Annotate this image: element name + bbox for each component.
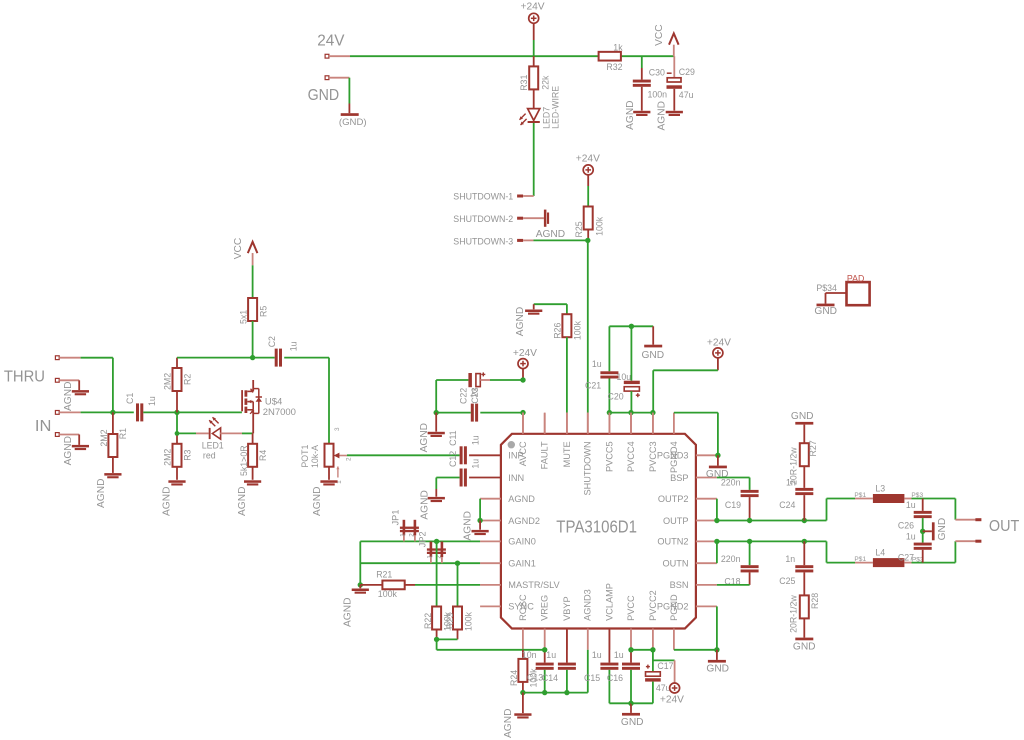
- svg-text:THRU: THRU: [4, 369, 45, 386]
- wire C2 to POT1: [328, 358, 330, 444]
- svg-text:5x1: 5x1: [238, 310, 248, 324]
- resistor R3 2M2: [163, 412, 193, 479]
- svg-text:C21: C21: [585, 381, 601, 391]
- svg-text:LED-WIRE: LED-WIRE: [550, 86, 560, 129]
- wire OUTP2 jog: [716, 499, 718, 521]
- supply +24V (AVCC): [513, 348, 537, 380]
- capacitor C18 220n (bootstrap N): [721, 541, 759, 586]
- port IN: [35, 411, 81, 435]
- svg-text:1u: 1u: [147, 396, 157, 406]
- ground GND (PGND bottom): [706, 650, 729, 675]
- wire gain set to VREG: [437, 639, 545, 649]
- svg-text:AGND3: AGND3: [583, 589, 593, 621]
- svg-text:OUTN: OUTN: [662, 559, 688, 569]
- svg-text:R23: R23: [445, 613, 455, 629]
- transistor U$4 2N7000: [242, 380, 296, 433]
- svg-text:INN: INN: [508, 473, 524, 483]
- svg-text:C12: C12: [448, 451, 458, 467]
- ground AGND (IN): [55, 433, 89, 466]
- svg-text:+24V: +24V: [513, 348, 537, 359]
- svg-text:AGND: AGND: [63, 382, 74, 411]
- svg-text:20R-1/2w: 20R-1/2w: [789, 595, 799, 633]
- wire R23 drop: [457, 563, 459, 606]
- ground GND (PGND top): [706, 455, 729, 480]
- svg-text:C14: C14: [542, 673, 558, 683]
- svg-text:C2: C2: [267, 336, 277, 347]
- wire analog gnd row: [523, 692, 588, 694]
- ground GND (snubber P): [791, 411, 814, 443]
- svg-text:1u: 1u: [592, 650, 602, 660]
- capacitor C1 1u: [125, 393, 177, 422]
- wire PGND top: [674, 413, 718, 456]
- junction agnd row 2: [542, 690, 547, 695]
- resistor R1 2M2: [99, 412, 128, 473]
- svg-text:AGND: AGND: [419, 423, 430, 452]
- svg-text:R25: R25: [574, 221, 584, 237]
- svg-text:1u: 1u: [592, 359, 602, 369]
- svg-text:+24V: +24V: [521, 2, 545, 13]
- svg-text:AGND: AGND: [508, 494, 535, 504]
- svg-text:10n: 10n: [522, 650, 537, 660]
- port SHUTDOWN-2: [453, 214, 544, 224]
- capacitor C24 1n (snubber P): [779, 478, 813, 521]
- port SHUTDOWN-1: [453, 191, 533, 201]
- junction R3/LED node: [175, 431, 180, 436]
- svg-text:100k: 100k: [573, 320, 583, 340]
- svg-text:1n: 1n: [785, 554, 795, 564]
- jumper JP2: [418, 531, 446, 563]
- svg-text:C16: C16: [607, 673, 623, 683]
- junction AVCC node right: [520, 410, 525, 415]
- svg-text:1n: 1n: [786, 478, 796, 488]
- inductor L4: [854, 547, 955, 567]
- svg-text:C20: C20: [608, 392, 624, 402]
- wire OUTP row: [717, 499, 855, 521]
- svg-text:AGND: AGND: [63, 436, 74, 465]
- svg-text:VREG: VREG: [540, 595, 550, 621]
- junction PGND top: [715, 453, 720, 458]
- wire R22 drop: [436, 541, 438, 606]
- resistor R27 20R-1/2w: [789, 440, 819, 488]
- svg-text:R4: R4: [258, 450, 268, 461]
- capacitor C27 1u (output filter): [898, 531, 932, 562]
- svg-text:OUTN2: OUTN2: [657, 537, 688, 547]
- IC top pin names: [518, 441, 679, 495]
- wire SHUTDOWN net vertical: [587, 240, 589, 433]
- resistor R24 100k (ROSC): [509, 650, 538, 693]
- capacitor C15 1u (VCLAMP): [584, 629, 618, 704]
- svg-text:ROSC: ROSC: [518, 594, 528, 621]
- wire R2 top to C2 node: [177, 357, 275, 359]
- svg-text:C17: C17: [657, 661, 673, 671]
- svg-text:R27: R27: [808, 440, 818, 456]
- resistor R2 2M2: [163, 358, 193, 413]
- wire power gnd row: [609, 702, 631, 704]
- svg-text:2M2: 2M2: [99, 429, 109, 446]
- capacitor C19 220n (bootstrap P): [721, 477, 759, 520]
- svg-text:R26: R26: [553, 323, 563, 339]
- svg-text:R3: R3: [182, 449, 192, 460]
- ground AGND (C12): [420, 490, 445, 519]
- svg-text:FAULT: FAULT: [540, 441, 550, 469]
- wire PVCC cap top rail: [609, 325, 653, 327]
- port GND (top left): [308, 76, 350, 113]
- ground GND symbol (top left): [339, 113, 367, 128]
- resistor R5 5x1: [238, 298, 268, 358]
- supply +24V (PVCC bulk): [653, 660, 684, 705]
- svg-text:100n: 100n: [648, 90, 668, 100]
- svg-text:AGND: AGND: [420, 490, 431, 519]
- junction GAIN1: [455, 561, 460, 566]
- svg-text:red: red: [203, 450, 216, 460]
- svg-text:BSP: BSP: [670, 473, 688, 483]
- wire IN net: [81, 411, 134, 413]
- svg-text:L4: L4: [875, 547, 885, 557]
- resistor R31 22k: [519, 56, 551, 91]
- ground AGND (shutdown-2): [536, 210, 565, 241]
- ground AGND under R4: [237, 480, 261, 516]
- capacitor C14 1u (VBYP): [542, 629, 576, 693]
- port THRU: [4, 356, 113, 413]
- junction SHUTDOWN net: [585, 238, 590, 243]
- ground AGND (R21): [343, 585, 369, 627]
- port 24V: [317, 32, 350, 58]
- resistor R22 100k: [423, 607, 453, 640]
- wire PVCC to C17: [631, 649, 653, 651]
- svg-text:1u: 1u: [546, 650, 556, 660]
- svg-text:+24V: +24V: [707, 337, 731, 348]
- svg-text:C11: C11: [448, 430, 458, 446]
- junction PVCC4: [628, 410, 633, 415]
- svg-text:OUT: OUT: [989, 518, 1020, 535]
- svg-text:220n: 220n: [721, 554, 741, 564]
- svg-text:GAIN1: GAIN1: [508, 559, 536, 569]
- svg-text:VBYP: VBYP: [562, 596, 572, 621]
- junction OUTP: [714, 518, 719, 523]
- junction C25/OUTN2: [802, 539, 807, 544]
- wire 24V rail: [350, 55, 674, 57]
- svg-text:R22: R22: [423, 613, 433, 629]
- svg-text:AGND: AGND: [503, 709, 514, 738]
- capacitor C30 100n: [633, 68, 667, 111]
- wire PVCC pin row: [609, 413, 653, 434]
- capacitor C2 1u: [267, 336, 329, 367]
- svg-text:GND: GND: [308, 87, 340, 104]
- junction PVCC pin: [628, 647, 633, 652]
- wire OUTN jog: [716, 541, 718, 563]
- capacitor C20 electrolytic (PVCC4): [608, 326, 640, 412]
- ground AGND under C30: [625, 100, 650, 129]
- junction R21 left: [358, 582, 363, 587]
- svg-text:R31: R31: [519, 75, 529, 91]
- svg-text:JP1: JP1: [391, 510, 401, 526]
- ground GND (cap rail): [642, 326, 665, 361]
- LED7 LED-WIRE: [520, 86, 561, 196]
- svg-text:24V: 24V: [317, 32, 345, 49]
- ground AGND under C29: [657, 101, 683, 130]
- svg-text:R2: R2: [182, 374, 192, 385]
- junction agnd row 1: [520, 690, 525, 695]
- svg-text:AGND: AGND: [536, 229, 565, 240]
- potentiometer POT1 10k-A: [300, 427, 352, 484]
- wire gate net: [177, 411, 242, 413]
- svg-text:C27: C27: [898, 552, 914, 562]
- IC bottom pin names: [518, 583, 679, 621]
- svg-text:R5: R5: [259, 306, 269, 317]
- junction PVCC5: [607, 410, 612, 415]
- wire AVCC pin: [522, 413, 524, 434]
- capacitor C13 10n (VREG): [522, 650, 554, 693]
- junction filter mid: [920, 529, 925, 534]
- svg-text:VCC: VCC: [654, 24, 665, 46]
- svg-text:GND: GND: [621, 717, 644, 728]
- svg-text:GND: GND: [642, 350, 665, 361]
- svg-text:100k: 100k: [464, 611, 474, 631]
- svg-text:(GND): (GND): [339, 117, 367, 128]
- svg-text:PAD: PAD: [847, 274, 864, 284]
- svg-text:AVCC: AVCC: [518, 441, 528, 466]
- svg-text:SHUTDOWN: SHUTDOWN: [583, 441, 593, 495]
- capacitor C29 47u electrolytic: [667, 56, 696, 110]
- resistor R32 1k: [599, 42, 624, 72]
- svg-text:R28: R28: [810, 593, 820, 609]
- junction AVCC node left: [434, 410, 439, 415]
- supply +24V (PVCC): [653, 337, 731, 412]
- svg-text:LED1: LED1: [202, 441, 224, 451]
- supply +24V (above R25): [576, 153, 600, 206]
- svg-text:R21: R21: [376, 570, 392, 580]
- ground AGND (bottom row): [503, 693, 532, 738]
- wire FAULT stub: [544, 413, 546, 434]
- svg-text:1u: 1u: [471, 459, 481, 469]
- pad P$34 PAD: [816, 274, 869, 306]
- svg-text:SHUTDOWN-1: SHUTDOWN-1: [453, 191, 513, 201]
- svg-text:GND: GND: [937, 518, 948, 541]
- svg-text:R24: R24: [509, 670, 519, 686]
- IC top pin stubs: [523, 413, 674, 434]
- wire AGND3 drop: [587, 650, 589, 693]
- wire OUT- branch: [955, 541, 976, 562]
- junction GAIN0: [434, 539, 439, 544]
- svg-text:MUTE: MUTE: [562, 441, 572, 467]
- ground AGND (R26): [515, 304, 543, 336]
- capacitor C23 1u (AVCC): [436, 387, 523, 421]
- svg-text:C29: C29: [679, 67, 695, 77]
- svg-text:R1: R1: [118, 428, 128, 439]
- junction VREG: [542, 647, 547, 652]
- svg-text:1: 1: [427, 555, 434, 559]
- junction PGND bottom: [714, 647, 719, 652]
- svg-text:47u: 47u: [679, 90, 694, 100]
- ground AGND under R3: [162, 480, 186, 516]
- svg-text:47u: 47u: [656, 683, 671, 693]
- svg-text:3: 3: [334, 427, 341, 431]
- IC left pin names: [508, 451, 560, 612]
- junction PVCC3: [650, 410, 655, 415]
- svg-text:GND: GND: [814, 306, 837, 317]
- svg-text:GND: GND: [706, 663, 729, 674]
- junction OUTN: [714, 539, 719, 544]
- svg-text:2: 2: [409, 533, 416, 537]
- svg-text:2M2: 2M2: [163, 373, 173, 390]
- junction IN/THRU: [110, 410, 115, 415]
- svg-text:MASTR/SLV: MASTR/SLV: [508, 580, 560, 590]
- svg-text:1u: 1u: [906, 532, 916, 542]
- svg-text:L3: L3: [875, 483, 885, 493]
- capacitor C26 1u (output filter): [898, 499, 932, 532]
- svg-text:C24: C24: [779, 500, 795, 510]
- capacitor C21 1u (PVCC5): [585, 326, 618, 412]
- resistor R26 100k: [534, 304, 583, 434]
- junction C24/OUTP: [802, 518, 807, 523]
- junction C18/OUTN2: [747, 539, 752, 544]
- svg-text:2M2: 2M2: [163, 449, 173, 466]
- ground AGND (AVCC caps): [419, 413, 445, 453]
- svg-text:P$34: P$34: [816, 283, 837, 293]
- svg-text:AGND: AGND: [312, 487, 323, 516]
- IC right pin names: [657, 451, 689, 612]
- wire OUTN2 row: [717, 541, 855, 562]
- svg-text:C15: C15: [584, 673, 600, 683]
- svg-text:VCC: VCC: [233, 238, 244, 260]
- wire PGND bottom: [674, 606, 717, 649]
- jumper JP1: [391, 510, 419, 542]
- svg-text:5k1>0R: 5k1>0R: [239, 445, 249, 476]
- svg-text:GAIN0: GAIN0: [508, 537, 536, 547]
- resistor R4 5k1>0R: [239, 433, 268, 479]
- svg-text:AGND: AGND: [515, 307, 526, 336]
- junction agnd row 3: [564, 690, 569, 695]
- power VCC arrow (top right): [654, 24, 679, 56]
- junction drain node: [250, 355, 255, 360]
- wire GAIN left drop: [359, 541, 361, 585]
- junction AVCC +24V: [520, 377, 525, 382]
- ground AGND (IC AGND pins): [462, 499, 488, 541]
- svg-text:P$1: P$1: [854, 492, 866, 499]
- svg-text:1u: 1u: [906, 500, 916, 510]
- svg-text:PVCC: PVCC: [626, 595, 636, 621]
- svg-text:OUTP2: OUTP2: [658, 494, 689, 504]
- svg-text:R32: R32: [606, 62, 622, 72]
- svg-text:1k: 1k: [613, 42, 623, 52]
- wire C30 branch: [641, 56, 643, 79]
- svg-text:C22: C22: [458, 388, 468, 404]
- svg-text:2N7000: 2N7000: [263, 407, 296, 418]
- capacitor C16 1u (PVCC): [607, 650, 640, 704]
- resistor R28 20R-1/2w: [789, 593, 820, 638]
- svg-text:BSN: BSN: [670, 580, 689, 590]
- svg-text:PVCC5: PVCC5: [604, 441, 614, 472]
- svg-text:220n: 220n: [721, 477, 741, 487]
- wire OUT+ branch: [955, 499, 976, 520]
- svg-text:1u: 1u: [289, 341, 299, 351]
- svg-text:P$1: P$1: [854, 556, 866, 563]
- capacitor C11 1u (INP): [448, 430, 501, 464]
- svg-text:AGND: AGND: [657, 101, 668, 130]
- supply +24V (top, above R31): [521, 2, 545, 57]
- svg-text:AGND: AGND: [343, 598, 354, 627]
- wire GAIN0 row: [360, 540, 480, 542]
- ground AGND (THRU): [55, 378, 89, 411]
- capacitor C17 47u electrolytic: [631, 650, 674, 704]
- svg-text:+24V: +24V: [660, 695, 684, 706]
- svg-text:1u: 1u: [470, 388, 479, 398]
- svg-text:AGND: AGND: [625, 100, 636, 129]
- svg-text:10k-A: 10k-A: [310, 445, 320, 468]
- svg-text:TPA3106D1: TPA3106D1: [556, 516, 637, 536]
- svg-text:100k: 100k: [378, 589, 398, 599]
- svg-text:100k: 100k: [595, 216, 605, 236]
- svg-text:AGND2: AGND2: [508, 516, 540, 526]
- svg-text:1: 1: [400, 533, 407, 537]
- junction C17 top: [650, 647, 655, 652]
- op-amp U1 TPA3106D1 (class-D amplifier IC): [501, 434, 696, 629]
- svg-text:2: 2: [345, 457, 352, 461]
- svg-text:AGND: AGND: [162, 487, 173, 516]
- ground GND (C15/C16): [621, 703, 644, 728]
- capacitor C25 1n (snubber N): [779, 541, 813, 595]
- svg-text:22k: 22k: [540, 75, 550, 90]
- svg-text:C26: C26: [898, 520, 914, 530]
- junction power gnd: [628, 701, 633, 706]
- svg-text:C13: C13: [527, 673, 543, 683]
- svg-text:AGND: AGND: [237, 487, 248, 516]
- power VCC arrow (left): [233, 238, 257, 298]
- LED1 red: [177, 417, 253, 460]
- resistor R23 100k: [445, 607, 474, 640]
- port SHUTDOWN-3: [453, 236, 588, 246]
- svg-text:C30: C30: [649, 68, 665, 78]
- ground GND (filter, rotated): [923, 518, 948, 541]
- svg-text:VCLAMP: VCLAMP: [604, 583, 614, 621]
- port OUT: [975, 518, 1019, 543]
- svg-text:P$3: P$3: [911, 492, 923, 499]
- capacitor C12 1u (INN): [436, 451, 501, 497]
- ground AGND under R1: [96, 473, 121, 508]
- capacitor C22 electrolytic (AVCC): [436, 372, 523, 404]
- svg-text:1u: 1u: [614, 650, 624, 660]
- svg-text:+24V: +24V: [576, 153, 600, 164]
- svg-text:10u: 10u: [617, 372, 632, 382]
- svg-text:1u: 1u: [471, 435, 481, 445]
- svg-text:POT1: POT1: [300, 445, 310, 468]
- wire POT1 wiper to C11: [347, 454, 460, 456]
- junction cap top rail: [629, 324, 634, 329]
- svg-text:U$4: U$4: [265, 397, 282, 408]
- IC right pin stubs: [696, 455, 717, 606]
- wire BSP net: [717, 478, 750, 490]
- ground GND (snubber N): [793, 638, 816, 653]
- svg-text:SHUTDOWN-2: SHUTDOWN-2: [453, 214, 513, 224]
- IC bottom pin stubs: [523, 629, 674, 650]
- svg-text:C19: C19: [725, 500, 741, 510]
- svg-text:C25: C25: [779, 576, 795, 586]
- junction R22/R23 bottoms: [437, 638, 458, 640]
- resistor R21 100k: [360, 570, 480, 599]
- svg-text:C1: C1: [125, 393, 135, 404]
- junction C19/OUTP: [747, 518, 752, 523]
- svg-text:GND: GND: [791, 411, 814, 422]
- svg-text:JP2: JP2: [418, 531, 428, 547]
- svg-text:OUTP: OUTP: [663, 516, 689, 526]
- resistor R25 100k: [574, 207, 604, 241]
- svg-text:PGND2: PGND2: [657, 602, 689, 612]
- junction gate node: [174, 410, 179, 415]
- svg-text:AGND: AGND: [462, 511, 473, 540]
- ground AGND under POT1: [312, 480, 338, 516]
- IC left pin stubs: [480, 499, 501, 607]
- svg-text:GND: GND: [793, 641, 816, 652]
